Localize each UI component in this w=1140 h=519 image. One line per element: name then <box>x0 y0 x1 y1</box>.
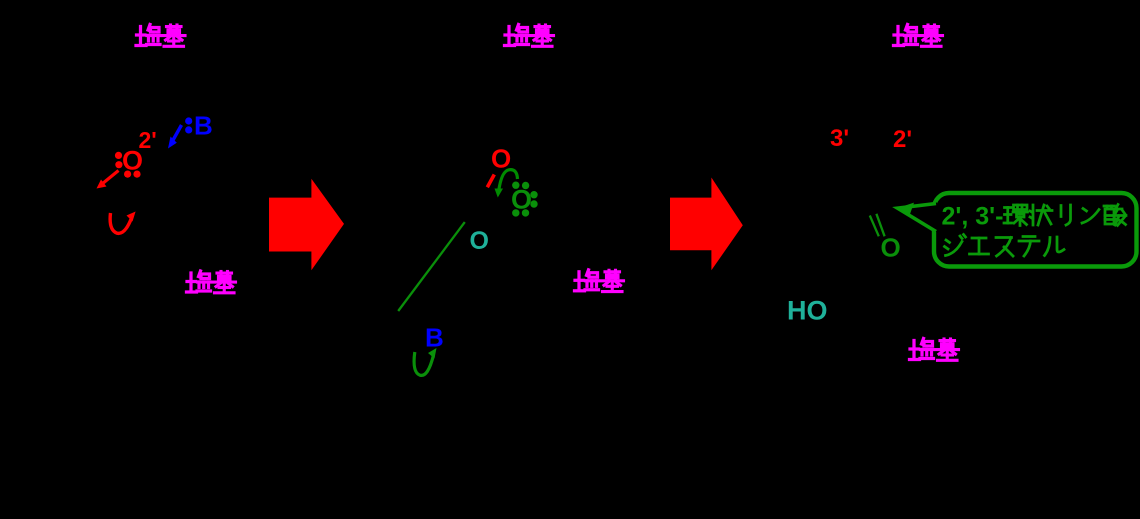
P=O double bond (green) <box>870 216 879 237</box>
状 <box>1030 205 1052 225</box>
reaction arrow 1 (red block arrow) <box>269 179 344 270</box>
green curved arrow under B <box>414 348 436 375</box>
label 塩基 top-right <box>894 25 943 47</box>
svg-text:O: O <box>881 232 901 262</box>
blue curved attack arrow from B <box>168 125 182 149</box>
ジ <box>945 235 966 256</box>
svg-text:HO: HO <box>787 295 828 325</box>
red arrow from O toward phosphorus <box>97 171 119 189</box>
bubble text line 2: ジエステル <box>945 235 1065 257</box>
red bond stub <box>487 175 494 188</box>
環 <box>1004 205 1028 226</box>
green curved arrow over to O <box>495 170 518 198</box>
label 塩基 top-left <box>136 25 185 47</box>
svg-text:O: O <box>122 146 143 176</box>
ス <box>996 238 1013 257</box>
svg-text:B: B <box>194 111 213 141</box>
bubble text line 1: 2', 3'-環状リン酸 <box>942 203 1127 231</box>
label 塩基 middle structure <box>575 270 624 292</box>
ン <box>1082 209 1099 224</box>
svg-text:O: O <box>470 227 489 255</box>
ル <box>1045 237 1065 256</box>
svg-text:B: B <box>425 323 444 353</box>
svg-text:2', 3'-: 2', 3'- <box>942 203 1004 231</box>
エ <box>970 238 989 254</box>
リ <box>1061 205 1071 225</box>
svg-text:2': 2' <box>893 126 912 153</box>
label 塩基 bottom of structure 1 <box>187 271 236 293</box>
callout bubble (green) <box>897 193 1137 267</box>
label 塩基 top-middle <box>505 25 554 47</box>
green bond line down to leaving base <box>398 222 465 311</box>
酸 <box>1104 205 1126 226</box>
テ <box>1019 237 1039 257</box>
red curved arrow (electron push loop) <box>110 212 135 234</box>
reaction arrow 2 (red block arrow) <box>670 178 743 271</box>
label 塩基 right structure <box>910 339 959 361</box>
svg-text:3': 3' <box>830 125 849 152</box>
